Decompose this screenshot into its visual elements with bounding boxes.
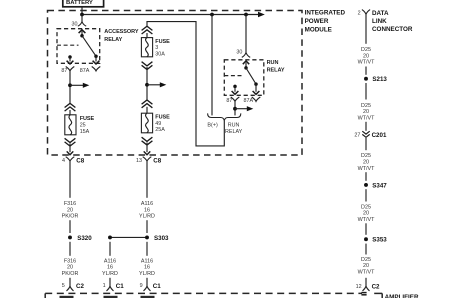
connector C201 chevrons xyxy=(362,131,369,134)
off-page wire xyxy=(147,84,161,86)
wire label A116 16 YL/RD xyxy=(102,258,118,276)
svg-text:D25: D25 xyxy=(361,47,371,53)
wire xyxy=(69,220,71,233)
accessory relay contact common xyxy=(81,31,83,36)
svg-text:20: 20 xyxy=(363,211,369,217)
svg-text:F316: F316 xyxy=(64,201,76,207)
svg-text:WT/VT: WT/VT xyxy=(358,166,375,172)
fuse F3 upper connector chevrons xyxy=(142,26,153,30)
svg-text:20: 20 xyxy=(67,207,73,213)
wire label A116 16 YL/RD xyxy=(139,201,155,219)
svg-text:S320: S320 xyxy=(77,235,92,242)
radio box top edge dashed xyxy=(45,292,362,294)
node contact 87A xyxy=(254,82,258,86)
wire xyxy=(365,83,367,100)
off-page arrow bus xyxy=(258,12,265,17)
pin 87 female terminal xyxy=(231,97,240,101)
wire xyxy=(365,223,367,235)
svg-text:CONNECTOR: CONNECTOR xyxy=(372,26,413,33)
svg-text:3: 3 xyxy=(155,45,158,51)
svg-text:FUSE: FUSE xyxy=(155,115,170,121)
svg-text:B(+): B(+) xyxy=(207,122,218,128)
run relay label xyxy=(267,60,285,74)
run relay pin 87 male arrow xyxy=(232,91,239,94)
svg-text:D25: D25 xyxy=(361,257,371,263)
accessory relay pin 87A stem xyxy=(95,56,97,61)
svg-text:PK/OR: PK/OR xyxy=(62,214,79,220)
wire battery to bus xyxy=(81,7,83,15)
svg-text:87A: 87A xyxy=(80,68,90,74)
svg-text:RUN: RUN xyxy=(228,122,240,128)
run relay coil linkage dashed xyxy=(224,75,241,77)
wire label D25 20 WT/VT xyxy=(358,47,375,66)
fuse F25 upper connector chevrons xyxy=(65,103,76,107)
splice S213 xyxy=(364,77,368,81)
wire 87 to brace xyxy=(234,101,236,115)
node battery junction xyxy=(80,13,84,17)
svg-text:INTEGRATED: INTEGRATED xyxy=(305,10,346,17)
wire label D25 20 WT/VT xyxy=(358,204,375,223)
wire xyxy=(69,144,71,153)
wire xyxy=(146,107,148,113)
radio pin text clipped xyxy=(60,296,74,298)
node B+ tap xyxy=(210,13,214,17)
run relay contact common xyxy=(245,63,247,68)
wire 87 to fuse 25 xyxy=(69,71,71,104)
amplifier box corner xyxy=(374,292,382,294)
node contact pivot xyxy=(244,66,248,70)
svg-text:4: 4 xyxy=(62,158,65,164)
splice S303 xyxy=(110,236,147,238)
data link connector label xyxy=(372,10,413,33)
svg-text:MODULE: MODULE xyxy=(305,26,332,33)
run relay movable contact xyxy=(246,68,256,84)
wire xyxy=(365,244,367,255)
fuse F3 lower connector chevrons xyxy=(142,62,153,66)
connector C8 pin 4 male arrow xyxy=(67,151,74,154)
svg-text:49: 49 xyxy=(155,121,161,127)
pin 30 female terminal xyxy=(78,22,86,27)
svg-text:WT/VT: WT/VT xyxy=(358,217,375,223)
svg-text:1: 1 xyxy=(103,283,106,289)
wire xyxy=(146,33,148,38)
svg-text:AMPLIFIER: AMPLIFIER xyxy=(385,294,419,298)
accessory relay pin 30 male arrow xyxy=(79,30,86,33)
run relay pin 87A stem xyxy=(255,84,257,92)
svg-text:20: 20 xyxy=(363,109,369,115)
svg-text:ACCESSORY: ACCESSORY xyxy=(104,29,139,35)
svg-text:12: 12 xyxy=(356,284,362,290)
wire xyxy=(146,143,148,153)
pin 30 female terminal xyxy=(242,52,250,57)
svg-text:16: 16 xyxy=(144,207,150,213)
wire bus to accessory relay pin 30 xyxy=(81,15,83,22)
svg-text:D25: D25 xyxy=(361,103,371,109)
off-page arrow xyxy=(247,106,254,111)
accessory relay pin 87A male arrow xyxy=(93,61,100,64)
node run relay tap xyxy=(244,13,248,17)
fuse F49 upper connector chevrons xyxy=(142,100,153,104)
integrated power module label xyxy=(305,10,346,34)
amplifier wire stub marks xyxy=(361,292,366,294)
splice S353 xyxy=(364,237,368,241)
node junction fuse 3 out xyxy=(145,83,149,87)
svg-text:25A: 25A xyxy=(155,127,165,133)
off-page wire xyxy=(70,84,84,86)
wire xyxy=(365,67,367,75)
node contact 87A xyxy=(94,54,98,58)
off-page arrow xyxy=(160,82,167,87)
svg-text:C2: C2 xyxy=(76,283,84,290)
wire fuse 3 to fuse 49 xyxy=(146,67,148,100)
connector C2 pin 5 xyxy=(69,278,71,286)
node junction run relay out xyxy=(233,107,237,111)
wire S303 branch xyxy=(109,242,111,256)
svg-text:30: 30 xyxy=(72,21,78,27)
svg-text:YL/RD: YL/RD xyxy=(139,271,155,277)
svg-text:A116: A116 xyxy=(141,201,153,207)
wire xyxy=(365,138,367,150)
svg-text:20: 20 xyxy=(363,160,369,166)
wire C8 to S303 xyxy=(146,161,148,198)
svg-text:87: 87 xyxy=(61,68,67,74)
wire brace node to fuse 3 feed xyxy=(147,22,224,146)
svg-text:RELAY: RELAY xyxy=(267,67,285,73)
wire xyxy=(365,122,367,131)
pin 87A female terminal xyxy=(92,67,101,71)
svg-text:A116: A116 xyxy=(141,258,153,264)
svg-text:S213: S213 xyxy=(372,76,387,83)
connector C8 pin 13 male arrow xyxy=(144,151,151,154)
svg-text:C8: C8 xyxy=(76,158,84,165)
svg-text:POWER: POWER xyxy=(305,18,329,25)
pin 87A female terminal xyxy=(252,97,261,101)
brace B+ / run relay xyxy=(208,113,241,120)
svg-text:D25: D25 xyxy=(361,204,371,210)
svg-text:BATTERY: BATTERY xyxy=(66,0,93,6)
svg-text:A116: A116 xyxy=(104,258,116,264)
run relay pin 87A male arrow xyxy=(253,91,260,94)
bus wire B+ xyxy=(82,14,259,16)
svg-text:87A: 87A xyxy=(244,98,254,104)
accessory relay pin 87 stem xyxy=(69,57,71,62)
svg-text:13: 13 xyxy=(136,158,142,164)
svg-text:15A: 15A xyxy=(80,129,90,135)
run relay U2 box xyxy=(224,60,263,96)
fuse F3 body xyxy=(141,38,152,57)
accessory relay U1 box xyxy=(57,29,100,64)
svg-text:F316: F316 xyxy=(64,258,76,264)
node contact 87 xyxy=(68,55,72,59)
svg-text:WT/VT: WT/VT xyxy=(358,115,375,121)
connector C2 pin 12 xyxy=(365,278,367,286)
wire C8 to S320 xyxy=(69,161,71,198)
run relay pin 30 male arrow xyxy=(243,61,249,64)
fuse F49 lower connector chevrons xyxy=(142,137,153,141)
svg-text:FUSE: FUSE xyxy=(80,116,95,122)
svg-text:20: 20 xyxy=(363,53,369,59)
integrated power module box xyxy=(48,11,303,156)
svg-text:30A: 30A xyxy=(155,51,165,57)
svg-text:16: 16 xyxy=(107,265,113,271)
wire DLC down xyxy=(365,14,367,44)
svg-text:87: 87 xyxy=(226,98,232,104)
accessory relay coil linkage dashed xyxy=(57,44,79,46)
svg-text:20: 20 xyxy=(67,265,73,271)
svg-text:S303: S303 xyxy=(154,235,169,242)
svg-text:LINK: LINK xyxy=(372,18,387,25)
accessory relay label xyxy=(104,29,139,43)
svg-text:DATA: DATA xyxy=(372,10,389,17)
svg-text:FUSE: FUSE xyxy=(155,39,170,45)
svg-text:S353: S353 xyxy=(372,237,387,244)
svg-text:YL/RD: YL/RD xyxy=(102,271,118,277)
svg-text:30: 30 xyxy=(236,50,242,56)
svg-text:2: 2 xyxy=(358,11,361,17)
wire bus to run relay pin 30 xyxy=(245,15,247,53)
data link connector pin 2 female terminal xyxy=(362,10,370,15)
svg-text:WT/VT: WT/VT xyxy=(358,270,375,276)
run relay pin 87 stem xyxy=(234,86,236,91)
wire label A116 16 YL/RD xyxy=(139,258,155,276)
svg-text:25: 25 xyxy=(80,123,86,129)
node junction 87 branch xyxy=(68,83,72,87)
radio box corner xyxy=(44,293,46,298)
svg-text:C201: C201 xyxy=(372,132,387,139)
wire xyxy=(365,189,367,201)
svg-text:C1: C1 xyxy=(153,283,161,290)
wire label D25 20 WT/VT xyxy=(358,103,375,122)
svg-text:S347: S347 xyxy=(372,182,387,189)
node contact 87 xyxy=(233,85,237,89)
connector C1 pin 1 xyxy=(109,278,111,286)
fuse F25 lower connector chevrons xyxy=(65,138,76,142)
pin 87 female terminal xyxy=(66,67,75,71)
svg-text:D25: D25 xyxy=(361,153,371,159)
node contact pivot xyxy=(80,34,84,38)
svg-text:RELAY: RELAY xyxy=(104,37,122,43)
accessory relay movable contact xyxy=(82,36,96,57)
svg-text:C2: C2 xyxy=(372,283,380,290)
connector C8 pin 4 female terminal xyxy=(66,157,75,162)
off-page wire xyxy=(235,108,248,110)
wire label D25 20 WT/VT xyxy=(358,153,375,172)
accessory relay pin 87 male arrow xyxy=(67,61,74,64)
svg-text:16: 16 xyxy=(144,265,150,271)
splice S347 xyxy=(364,183,368,187)
connector C1 pin 9 xyxy=(146,278,148,286)
wire xyxy=(365,172,367,181)
svg-text:27: 27 xyxy=(354,133,360,139)
fuse F25 body xyxy=(65,115,76,135)
wire label F316 20 PK/OR xyxy=(62,201,79,219)
svg-text:RUN: RUN xyxy=(267,60,279,66)
wire label D25 20 WT/VT xyxy=(358,257,375,276)
wire xyxy=(146,220,148,233)
off-page arrow xyxy=(83,83,90,88)
wire label F316 20 PK/OR xyxy=(62,258,79,276)
battery B+ xyxy=(63,0,104,7)
svg-text:RELAY: RELAY xyxy=(225,129,243,135)
svg-text:9: 9 xyxy=(140,283,143,289)
wire bus to B+ brace xyxy=(211,15,213,116)
svg-text:C8: C8 xyxy=(153,158,161,165)
connector C8 pin 13 female terminal xyxy=(143,157,152,162)
svg-text:YL/RD: YL/RD xyxy=(139,214,155,220)
fuse F49 body xyxy=(141,113,152,133)
svg-text:WT/VT: WT/VT xyxy=(358,60,375,66)
svg-text:PK/OR: PK/OR xyxy=(62,271,79,277)
svg-text:C1: C1 xyxy=(116,283,124,290)
splice S320 xyxy=(68,235,72,239)
wire xyxy=(69,110,71,115)
svg-text:20: 20 xyxy=(363,263,369,269)
svg-text:5: 5 xyxy=(62,283,65,289)
